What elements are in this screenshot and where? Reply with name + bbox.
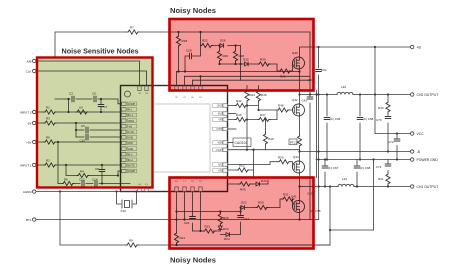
svg-text:CH2 OUTPUT: CH2 OUTPUT xyxy=(417,93,439,97)
svg-text:Q42: Q42 xyxy=(292,98,298,102)
wire R45 column xyxy=(258,86,260,111)
resistor R50 gate Q44 xyxy=(278,156,290,164)
terminal AGND xyxy=(23,190,36,194)
resistor R29 xyxy=(256,201,268,210)
resistor R25 xyxy=(218,213,229,225)
wire CAO stub xyxy=(228,142,234,144)
resistor R30 xyxy=(258,58,270,67)
wire vertical x76 xyxy=(75,123,77,137)
svg-text:(C) C66: (C) C66 xyxy=(330,117,341,121)
capacitor C68 xyxy=(357,117,373,121)
IC bottom pin 16 xyxy=(175,181,179,192)
junction dot +B rail xyxy=(317,46,376,48)
svg-text:PTC1: PTC1 xyxy=(290,140,298,144)
svg-text:-5V: -5V xyxy=(27,121,32,125)
svg-text:R40: R40 xyxy=(378,106,384,110)
wire gate row Q44 xyxy=(228,162,293,167)
wire bottom box pin stub 1 xyxy=(176,192,178,246)
resistor R7 xyxy=(127,26,139,35)
junction dots -B rail xyxy=(298,150,389,152)
IC left pin 13 xyxy=(122,169,137,173)
svg-text:INPUT 2: INPUT 2 xyxy=(20,110,32,114)
wire R18 vertical xyxy=(178,32,180,72)
wire CH1 rail xyxy=(300,186,411,188)
capacitor C42 xyxy=(307,97,313,99)
svg-text:A/B: A/B xyxy=(27,59,32,63)
svg-text:AD: AD xyxy=(218,170,222,173)
svg-text:+B: +B xyxy=(417,46,422,50)
wire C10 row xyxy=(76,136,122,138)
svg-text:Noisy Nodes: Noisy Nodes xyxy=(170,6,216,15)
wire Q40 source to switch node xyxy=(299,69,301,104)
resistor R42 xyxy=(235,99,247,108)
label box CAO101 xyxy=(233,138,251,147)
terminal +B xyxy=(411,45,422,49)
terminal VCC xyxy=(411,132,425,136)
svg-text:(C) C68: (C) C68 xyxy=(363,117,374,121)
diode D24 xyxy=(224,233,230,242)
svg-text:R42: R42 xyxy=(236,99,242,103)
mosfet Q41 xyxy=(291,195,305,213)
wire gate row Q42 xyxy=(259,109,293,111)
svg-text:R45: R45 xyxy=(261,93,267,97)
IC left pin 11 xyxy=(122,158,137,162)
wire bus y211.5 xyxy=(177,211,241,213)
svg-text:C71: C71 xyxy=(376,165,382,169)
wire bottom rail to right xyxy=(138,244,330,246)
svg-text:NTH: NTH xyxy=(217,128,222,131)
diode D32 xyxy=(243,58,249,67)
wire C69 column xyxy=(356,160,358,187)
wire R43 row xyxy=(228,183,257,185)
capacitor C66 xyxy=(324,117,340,121)
svg-text:CH1 OUTPUT: CH1 OUTPUT xyxy=(417,185,439,189)
bottom red box border xyxy=(170,178,314,249)
junction dot AGND xyxy=(59,190,61,192)
IC U10 amplifier body xyxy=(121,86,228,192)
capacitor C7 xyxy=(98,105,107,110)
capacitor C72 xyxy=(388,139,400,144)
IC top pin 21 xyxy=(183,86,187,99)
IC bottom pin 15 xyxy=(145,184,149,192)
noise sensitive nodes green overlay xyxy=(37,58,153,188)
wire bottom row green box xyxy=(58,183,130,185)
svg-text:WD: WD xyxy=(218,142,222,145)
svg-text:CH2: CH2 xyxy=(217,105,222,108)
junction dot x330 xyxy=(329,229,331,231)
svg-text:R41: R41 xyxy=(378,177,384,181)
wire R42 row xyxy=(228,105,259,107)
IC bottom pin 18 xyxy=(191,181,195,192)
wire Q44 drain up xyxy=(299,150,301,162)
wire VCC rail xyxy=(375,133,411,135)
wire -5V row xyxy=(36,122,122,124)
mosfet Q42 xyxy=(292,98,305,116)
IC U10 pin-1 mark xyxy=(125,91,131,97)
terminal CH1 OUTPUT xyxy=(411,185,439,189)
wire bottom box pin stub 2 xyxy=(184,192,186,220)
svg-text:R52: R52 xyxy=(239,164,245,168)
wire pin NTH stub xyxy=(228,128,237,130)
resistor R3 xyxy=(44,117,56,126)
capacitor C21 xyxy=(184,217,195,226)
IC left pin 4 xyxy=(122,119,137,123)
wire R44 column xyxy=(246,86,248,150)
svg-text:R7: R7 xyxy=(130,26,134,30)
wire -B rail xyxy=(300,151,411,153)
svg-text:R44: R44 xyxy=(250,93,256,97)
junction dot stub2 xyxy=(183,218,185,220)
wire vertical x375 xyxy=(374,47,376,134)
resistor R8 xyxy=(126,239,138,248)
crystal X10 xyxy=(122,200,132,208)
wire C64 column xyxy=(318,47,320,187)
IC left pin 8 xyxy=(122,141,137,145)
svg-text:L40: L40 xyxy=(341,85,346,89)
IC top pin 19 xyxy=(199,86,203,99)
IC right pin VP xyxy=(213,118,228,122)
svg-text:R8: R8 xyxy=(129,239,133,243)
capacitor C28 xyxy=(186,49,192,59)
wire R26 vertical xyxy=(219,46,221,65)
resistor R21 xyxy=(174,232,185,244)
svg-text:+5V: +5V xyxy=(26,140,31,144)
capacitor C70 xyxy=(376,117,391,123)
resistor R43 xyxy=(239,182,251,192)
svg-text:Q44: Q44 xyxy=(293,155,299,159)
wire R40/C70 zobel column xyxy=(387,95,389,152)
svg-text:(C) C68: (C) C68 xyxy=(360,166,371,170)
wire C71/R41 zobel column xyxy=(387,160,389,187)
IC top pin 22 xyxy=(175,86,179,99)
wire R52 row xyxy=(228,150,254,178)
IC left pin 10 xyxy=(122,152,137,156)
capacitor C12 xyxy=(79,178,85,187)
IC left pin 6 xyxy=(122,130,137,134)
junction dots X10/AGND xyxy=(115,190,137,192)
wire pin IN2 stub xyxy=(228,113,237,115)
resistor R48 gate Q42 xyxy=(277,104,289,113)
resistor R47 xyxy=(258,113,270,122)
junction dots R4 row xyxy=(65,164,119,177)
IC top pin 20 xyxy=(191,86,195,99)
capacitor C5 xyxy=(92,92,96,102)
wire bottom rail stub xyxy=(171,244,330,246)
capacitor C71 xyxy=(376,164,391,169)
resistor R49 xyxy=(263,133,273,145)
inductor L40 xyxy=(337,85,353,95)
wire bus vertical x310 xyxy=(309,32,311,220)
capacitor C14 xyxy=(92,178,98,187)
wire C28 loop xyxy=(185,46,201,72)
IC right pin CLIP xyxy=(213,148,228,152)
junction dots R26 R28 xyxy=(218,44,236,65)
IC left pin 9 xyxy=(122,147,137,151)
terminal CH2 OUTPUT xyxy=(411,93,439,97)
terminal A/B xyxy=(27,59,36,63)
terminal POWER GND xyxy=(411,158,439,162)
resistor R40 xyxy=(378,101,390,113)
wire C72 column xyxy=(396,134,398,160)
wire gate row top box xyxy=(220,64,293,71)
noisy nodes bottom red overlay xyxy=(170,178,314,249)
svg-text:AGND: AGND xyxy=(23,190,33,194)
IC left pin 7 xyxy=(122,136,137,140)
wire AGND row xyxy=(36,191,152,193)
resistor R18 xyxy=(176,35,187,47)
IC right pin CH2 xyxy=(213,104,228,108)
junction dot C27 top xyxy=(240,206,242,212)
capacitor C27 xyxy=(238,216,250,222)
wire AGND down to bottom rail xyxy=(60,192,126,246)
diode D23 xyxy=(218,226,229,231)
diode D40 xyxy=(256,179,267,186)
IC right pin AD xyxy=(213,169,228,173)
capacitor C67 xyxy=(322,166,338,170)
IC bottom pin 18b xyxy=(199,181,203,192)
resistor R46 xyxy=(235,113,247,122)
wire bus vertical x316.5 xyxy=(316,91,318,178)
junction dots bottom row xyxy=(57,141,103,185)
wire R7 top rail xyxy=(55,32,310,58)
terminal INPUT 2 xyxy=(20,110,36,114)
IC bottom pin 17 xyxy=(183,181,187,192)
wire C67 column xyxy=(324,160,326,187)
svg-text:R48: R48 xyxy=(278,104,284,108)
thermistor PTC1 xyxy=(289,135,302,147)
resistor R28 xyxy=(233,50,244,62)
svg-text:C72: C72 xyxy=(388,140,394,144)
wire Q44 source to switch node xyxy=(299,173,301,201)
junction dots R47 xyxy=(246,118,267,120)
svg-text:R50: R50 xyxy=(278,156,284,160)
svg-text:Noisy Nodes: Noisy Nodes xyxy=(170,256,216,265)
svg-text:X10: X10 xyxy=(121,209,127,213)
diode D22 xyxy=(241,201,247,210)
resistor R45 xyxy=(256,90,266,102)
wire D40 to right xyxy=(260,180,268,184)
svg-text:NC: NC xyxy=(218,164,222,167)
wire R46/R47 row xyxy=(228,119,278,121)
wire CLK to IC top pin xyxy=(36,71,147,86)
capacitor C64 xyxy=(316,68,327,72)
junction dots input row xyxy=(67,98,102,113)
wire D24 row xyxy=(220,225,240,235)
mosfet Q40 xyxy=(292,51,305,69)
svg-text:Noise Sensitive Nodes: Noise Sensitive Nodes xyxy=(62,47,139,56)
wire x373.5 vertical xyxy=(373,160,375,231)
wire x277 vertical gate Q42 xyxy=(276,110,278,120)
junction dots R44 R45 xyxy=(246,104,260,111)
wire R25/D23 column xyxy=(219,212,221,232)
crystal X10 stubs xyxy=(117,192,137,205)
IC right pin NTH xyxy=(213,127,228,131)
wire R31 gate row xyxy=(280,199,293,208)
wire INPUT1 row xyxy=(36,164,122,166)
wire C66 column xyxy=(326,95,328,160)
wire vertical x68.5 xyxy=(68,99,70,112)
junction dots R21 xyxy=(175,218,177,246)
resistor R44 xyxy=(245,90,255,102)
IC right pin IN2 xyxy=(213,112,228,116)
wire R4 row xyxy=(66,165,122,176)
resistor R31 xyxy=(282,193,294,202)
capacitor C10 xyxy=(80,134,89,142)
junction dot VCC rail xyxy=(396,132,398,134)
wire x240.6 vertical top box xyxy=(240,46,242,81)
svg-text:CLIP: CLIP xyxy=(216,149,222,152)
IC left pin 1 xyxy=(122,102,137,106)
wire top pin stubs xyxy=(177,72,201,87)
IC right pin WD xyxy=(213,141,228,145)
IC U10 thermal pad xyxy=(152,104,210,172)
svg-text:R46: R46 xyxy=(236,113,242,117)
top red box border xyxy=(170,19,314,91)
capacitor C69 xyxy=(354,166,370,170)
svg-text:CAO101: CAO101 xyxy=(235,141,248,145)
capacitor C3 xyxy=(69,92,74,102)
junction dots GND rail xyxy=(317,158,398,160)
wire x330 vertical xyxy=(329,187,331,246)
wire POWER GND rail xyxy=(316,159,411,161)
resistor R41 xyxy=(378,173,390,185)
wire feedback row top box xyxy=(177,72,311,81)
IC right pin NC xyxy=(213,163,228,167)
junction dots CH2 rail xyxy=(298,93,389,95)
junction dots C9/C10 xyxy=(75,122,77,131)
noisy nodes top red overlay xyxy=(170,19,314,91)
green box border xyxy=(37,58,153,188)
resistor R36 xyxy=(279,69,291,79)
svg-text:VP: VP xyxy=(218,119,222,122)
wire C27 column xyxy=(240,208,242,226)
mosfet Q44 xyxy=(293,155,305,173)
wire C8 vertical xyxy=(101,165,103,184)
wire vertical x58 xyxy=(57,142,59,184)
wire C9 row xyxy=(76,129,122,131)
terminal +5V xyxy=(26,140,36,144)
resistor R52 xyxy=(237,164,249,173)
wire CH2 switch rail xyxy=(300,94,411,96)
wire R49 column xyxy=(265,120,267,150)
IC top pin 24 xyxy=(138,86,142,95)
resistor R1 xyxy=(44,106,56,115)
resistor R6 xyxy=(62,178,74,186)
IC left pin 12 xyxy=(122,164,137,168)
wire C3/C5 row xyxy=(55,99,122,104)
wire R22 to D26 xyxy=(212,45,241,47)
wire C7 vertical xyxy=(100,99,102,112)
terminal BTL xyxy=(26,218,36,222)
svg-text:(C) C67: (C) C67 xyxy=(328,166,339,170)
terminal INPUT 1 xyxy=(20,163,36,167)
wire C68 column xyxy=(359,95,361,160)
wire Q42 source to PTC xyxy=(299,116,301,152)
inductor L42 xyxy=(338,177,354,187)
wire INPUT2 row xyxy=(36,111,122,113)
svg-text:L42: L42 xyxy=(342,177,347,181)
resistor R22 xyxy=(201,39,213,48)
wire Q41 source down xyxy=(299,212,301,219)
resistor R23 xyxy=(204,225,216,234)
svg-text:POWER GND: POWER GND xyxy=(417,158,439,162)
wire R28 vertical xyxy=(235,46,237,65)
junction dot Q41 source xyxy=(298,218,300,220)
resistor A3 xyxy=(76,106,88,115)
terminal -5V xyxy=(27,121,36,125)
diode D26 xyxy=(220,39,226,48)
IC left pin 5 xyxy=(122,124,137,128)
wire y230 horizontal xyxy=(330,229,374,231)
resistor R26 xyxy=(217,50,228,62)
wire A/B to IC top pin xyxy=(36,61,140,86)
capacitor C9 xyxy=(81,124,88,133)
junction dots bus211 xyxy=(175,210,221,212)
resistor R5 xyxy=(44,136,56,145)
wire bottom box pin stub 4 xyxy=(200,192,202,232)
wire BTL row xyxy=(36,219,319,221)
IC top pin 23 xyxy=(145,86,149,95)
IC bottom pin 14 xyxy=(138,184,142,192)
wire bottom box pin stub 3 / C21 xyxy=(192,192,194,232)
svg-text:INPUT 1: INPUT 1 xyxy=(20,163,32,167)
capacitor C8 xyxy=(95,167,105,172)
wire +5V row xyxy=(36,141,122,143)
terminal -B xyxy=(411,150,421,154)
wire x200 down xyxy=(200,32,202,46)
junction dot R18 top xyxy=(177,31,201,33)
svg-text:R47: R47 xyxy=(260,113,266,117)
junction dots CH1 rail xyxy=(298,150,389,187)
wire Q40 drain to +B xyxy=(300,47,411,57)
wire clip row y149.7 xyxy=(228,149,300,151)
IC left pin 3 xyxy=(122,113,137,117)
svg-text:BTL: BTL xyxy=(26,218,32,222)
svg-text:VCC: VCC xyxy=(417,132,425,136)
junction dot bus231 xyxy=(199,230,201,232)
svg-text:C70: C70 xyxy=(376,118,382,122)
svg-text:CLK: CLK xyxy=(26,69,32,73)
svg-text:R49: R49 xyxy=(268,137,274,141)
resistor R2 xyxy=(44,159,56,168)
terminal CLK xyxy=(26,69,36,73)
svg-text:IN2: IN2 xyxy=(218,113,222,116)
svg-text:C42: C42 xyxy=(302,99,308,103)
IC left pin 2 xyxy=(122,108,137,112)
wire D22/R29 row xyxy=(241,207,280,209)
wire BTL jog up to CH1 xyxy=(318,187,320,220)
svg-text:C64: C64 xyxy=(321,68,327,72)
wire bus y231 xyxy=(193,230,221,232)
junction dots clip row xyxy=(246,149,255,151)
resistor R4 xyxy=(77,170,89,178)
junction dots top box xyxy=(177,63,300,78)
